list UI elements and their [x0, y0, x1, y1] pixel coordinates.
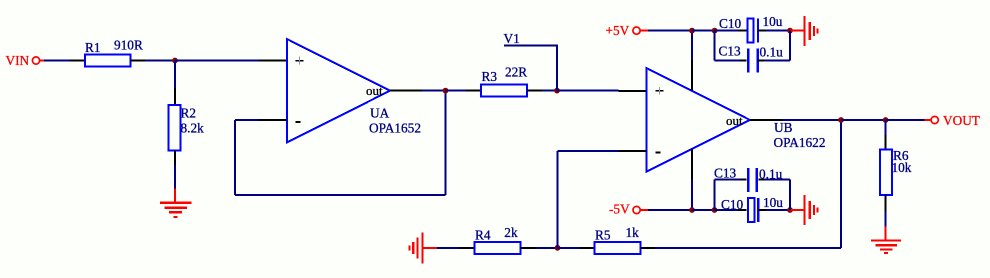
wire V1 stub horizontal — [504, 45, 558, 47]
svg-text:C13: C13 — [714, 166, 737, 181]
node VIN terminal circle — [32, 57, 39, 64]
resistor R4 — [475, 242, 521, 254]
ground below R6 — [871, 226, 901, 253]
pin label UB - — [656, 152, 661, 154]
wire C13 bottom branch left vertical — [714, 180, 716, 211]
wire UA - to feedback corner — [235, 119, 259, 121]
wire R6 to ground — [885, 211, 887, 226]
junction +5V right node — [787, 28, 793, 34]
wire -5V rail left — [648, 209, 692, 211]
wire node A to UA + — [175, 60, 259, 62]
wire feedback vertical UB — [840, 120, 842, 248]
resistor R3 — [481, 85, 527, 97]
pin UA + input — [259, 60, 287, 62]
node -5V terminal circle — [633, 206, 640, 213]
svg-text:C13: C13 — [719, 44, 742, 59]
wire feedback bottom — [235, 194, 446, 196]
svg-text:out: out — [726, 113, 743, 128]
pin R5 pin1 — [580, 247, 595, 249]
capacitor C13 bottom — [748, 168, 757, 192]
junction node A — [172, 58, 178, 64]
svg-text:10u: 10u — [763, 195, 783, 210]
junction node B — [443, 88, 449, 94]
svg-text:22R: 22R — [505, 65, 527, 80]
pin UB V+ — [691, 60, 693, 91]
wire C13 top branch right horizontal — [764, 60, 790, 62]
pin R4 pin2 — [521, 247, 536, 249]
pin UA - input — [259, 119, 287, 121]
svg-text:out: out — [366, 83, 383, 98]
pin R6 pin2 — [885, 195, 887, 211]
wire C13 bottom branch right horizontal — [764, 179, 790, 181]
wire R3 to node V1 — [542, 90, 557, 92]
pin C13 pin2 — [758, 60, 764, 62]
wire C13 top branch left vertical — [714, 31, 716, 61]
pin C10 bottom pin2 — [758, 209, 766, 211]
junction +5V at V+ pin — [689, 28, 695, 34]
junction -5V at C13 branch — [712, 207, 718, 213]
wire node A down to R2 — [174, 61, 176, 89]
pin R4 pin1 — [459, 247, 475, 249]
pin UB V- — [691, 149, 693, 179]
ground left of R4 — [410, 232, 423, 263]
pin label UA - — [296, 121, 301, 123]
wire -5V rail mid — [692, 209, 715, 211]
wire node C to R5 — [558, 247, 581, 249]
node VOUT terminal circle — [931, 116, 938, 123]
svg-text:8.2k: 8.2k — [181, 121, 205, 136]
wire V- pin to -5V rail — [691, 179, 693, 210]
junction -5V right node — [787, 207, 793, 213]
svg-text:VOUT: VOUT — [943, 113, 980, 128]
pin C10 pin2 — [758, 30, 766, 32]
svg-text:+5V: +5V — [606, 23, 630, 38]
wire -5V stub — [641, 209, 648, 211]
op-amp UB — [647, 68, 751, 172]
wire R2 to ground — [174, 165, 176, 189]
wire -5V rail to C10 — [715, 209, 739, 211]
resistor R6 — [880, 150, 892, 196]
junction node C — [555, 245, 561, 251]
pin label UA + — [296, 57, 304, 65]
wire node B to R3 — [446, 90, 467, 92]
ground right of +5V rail — [805, 16, 818, 46]
svg-text:10k: 10k — [892, 160, 912, 175]
junction +5V at C13 branch — [712, 28, 718, 34]
svg-text:1k: 1k — [626, 225, 640, 240]
wire feedback left vertical — [234, 120, 236, 195]
pin C13 bottom pin2 — [758, 179, 764, 181]
pin label UB + — [656, 87, 664, 95]
svg-text:OPA1622: OPA1622 — [774, 135, 826, 150]
svg-text:0.1u: 0.1u — [760, 45, 784, 60]
wire +5V down to V+ pin — [691, 31, 693, 60]
pin R5 pin2 — [641, 247, 655, 249]
svg-text:V1: V1 — [504, 31, 520, 46]
ground below R2 — [160, 189, 192, 217]
wire to top ground — [790, 30, 805, 32]
svg-text:C10: C10 — [721, 197, 744, 212]
pin C13 pin1 — [740, 60, 747, 62]
wire node C up — [557, 151, 559, 248]
wire V1 node to UB + — [557, 90, 619, 92]
wire R5 to feedback vertical — [655, 247, 841, 249]
svg-text:UB: UB — [774, 120, 793, 135]
wire to bottom ground — [790, 209, 805, 211]
svg-text:R4: R4 — [475, 228, 491, 243]
wire node C to UB - — [558, 150, 619, 152]
wire V1 stub vertical — [556, 46, 558, 91]
svg-text:10u: 10u — [763, 14, 783, 29]
svg-text:OPA1652: OPA1652 — [369, 121, 421, 136]
pin R3 pin2 — [527, 90, 542, 92]
wire UA out to node B — [422, 90, 446, 92]
capacitor C10 bottom positive plate — [748, 198, 754, 222]
wire ground to R4 red — [423, 247, 438, 249]
svg-text:2k: 2k — [504, 225, 518, 240]
pin UB - input — [619, 150, 647, 152]
svg-text:R5: R5 — [595, 228, 611, 243]
wire node D to node E — [841, 119, 886, 121]
node +5V terminal circle — [633, 27, 640, 34]
pin C13 bottom pin1 — [740, 179, 746, 181]
wire C13 top branch right vertical — [789, 31, 791, 61]
wire node E down to R6 — [885, 120, 887, 135]
pin R2 pin1 — [174, 88, 176, 105]
svg-text:R1: R1 — [85, 40, 101, 55]
pin R1 pin2 — [131, 60, 146, 62]
svg-text:R3: R3 — [482, 69, 498, 84]
wire +5V stub — [641, 30, 649, 32]
capacitor C13 top — [748, 49, 758, 73]
svg-text:C10: C10 — [719, 16, 742, 31]
resistor R1 — [85, 55, 131, 67]
wire VOUT stub — [924, 119, 931, 121]
wire R1 to node A — [146, 60, 176, 62]
pin R1 pin1 — [70, 60, 86, 62]
pin UB output — [750, 119, 782, 121]
pin R3 pin1 — [466, 90, 481, 92]
wire VIN stub — [40, 60, 45, 62]
svg-text:VIN: VIN — [6, 53, 30, 68]
resistor R2 — [168, 105, 180, 151]
junction -5V at V- pin — [689, 207, 695, 213]
wire R4 to node C — [536, 247, 558, 249]
wire UB out to node D — [782, 119, 841, 121]
junction node D — [838, 117, 844, 123]
capacitor C10 top negative plate — [757, 19, 759, 43]
wire C13 top branch left horizontal — [715, 60, 740, 62]
svg-text:-5V: -5V — [609, 202, 630, 217]
capacitor C10 top positive plate — [747, 19, 753, 43]
pin UA output — [390, 90, 422, 92]
capacitor C10 bottom negative plate — [757, 198, 759, 222]
resistor R5 — [595, 242, 641, 254]
pin UB + input — [619, 90, 647, 92]
ground right of -5V rail — [805, 195, 818, 225]
junction node V1 — [554, 88, 560, 94]
svg-text:UA: UA — [370, 106, 390, 121]
wire C13 bottom branch right vertical — [789, 180, 791, 211]
wire C10 to -5V right node — [766, 209, 790, 211]
wire C10 to +5V right node — [766, 30, 790, 32]
pin R6 pin1 — [885, 135, 887, 150]
wire C13 bottom branch left horizontal — [715, 179, 741, 181]
junction node E — [883, 117, 889, 123]
wire +5V rail mid — [692, 30, 715, 32]
wire node E to VOUT — [886, 119, 925, 121]
op-amp UA — [287, 39, 390, 143]
pin C10 bottom pin1 — [738, 209, 746, 211]
wire ground to R4 — [437, 247, 459, 249]
svg-text:910R: 910R — [114, 38, 143, 53]
pin R2 pin2 — [174, 151, 176, 166]
wire VIN to R1 — [44, 60, 70, 62]
wire +5V rail to C10 — [715, 30, 738, 32]
svg-text:R2: R2 — [181, 106, 197, 121]
wire +5V rail left — [648, 30, 692, 32]
wire feedback right vertical — [445, 91, 447, 195]
pin C10 pin1 — [738, 30, 747, 32]
